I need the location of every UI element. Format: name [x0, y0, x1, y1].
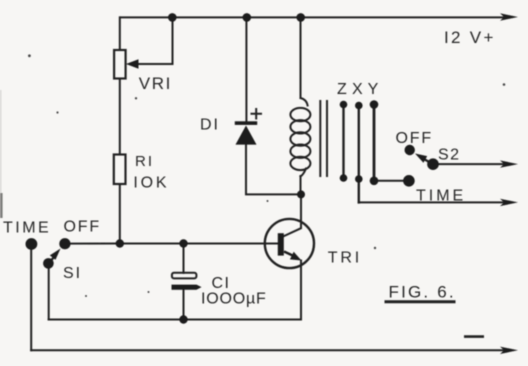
svg-text:DI: DI	[200, 117, 220, 134]
svg-text:Z X Y: Z X Y	[337, 81, 379, 98]
capacitor C1 top plate	[172, 273, 197, 279]
transistor TR1 emitter arrow	[284, 252, 297, 258]
wire VR1 to R1	[119, 79, 121, 155]
wire TR1 collector	[284, 194, 301, 236]
wire S1 TIME drop	[30, 244, 32, 350]
switch S2 OFF contact	[405, 145, 415, 155]
svg-text:SI: SI	[63, 265, 82, 282]
svg-text:OFF: OFF	[396, 130, 433, 147]
arrow top rail	[500, 13, 518, 20]
contact X bottom node	[355, 175, 363, 183]
contact X top node	[355, 102, 363, 110]
wire S1 pole drop	[48, 263, 50, 320]
potentiometer VR1	[114, 50, 126, 79]
svg-text:IOK: IOK	[133, 174, 169, 191]
capacitor C1 bottom lead	[183, 290, 185, 320]
label FIG. 6. underline	[385, 300, 456, 303]
contact Y top node	[370, 100, 379, 109]
diode D1 triangle	[236, 126, 257, 145]
wire S2 pole output	[433, 163, 505, 165]
switch S1 TIME contact	[26, 238, 38, 250]
transistor TR1 circle	[265, 219, 314, 268]
transistor TR1 base bar	[278, 233, 284, 255]
node base row C1 junction	[179, 239, 187, 247]
contact X	[358, 105, 360, 202]
contact Y	[373, 104, 376, 181]
switch S2 lever arrowhead	[415, 154, 427, 163]
wire base row	[65, 243, 278, 245]
switch S2 lever	[422, 158, 434, 165]
node rail-coil junction	[296, 13, 305, 22]
wire VR1 wiper to rail	[139, 17, 173, 64]
node base row R1 junction	[116, 239, 124, 247]
wire D1 anode to coil junction	[246, 145, 301, 195]
label D1 plus	[251, 108, 263, 120]
svg-text:S2: S2	[438, 147, 461, 164]
wire Y to S2 TIME contact	[374, 180, 410, 182]
switch S1 lever arrowhead	[50, 249, 61, 260]
wire coil bottom to junction	[300, 176, 302, 194]
node D1-coil-collector junction	[297, 190, 305, 198]
contact Y bottom node	[370, 177, 379, 186]
switch S2 pole	[427, 158, 439, 170]
diode D1 cathode bar	[235, 121, 257, 125]
svg-text:IOOOµF: IOOOµF	[201, 291, 267, 308]
wire D1 top drop	[245, 17, 247, 121]
wire TIME output	[359, 201, 505, 203]
contact Z top node	[340, 101, 348, 109]
node rail-D1 junction	[243, 13, 252, 22]
svg-text:VRI: VRI	[139, 74, 172, 93]
arrow S2 output	[500, 160, 518, 167]
svg-text:TIME: TIME	[416, 188, 466, 205]
wire VR1 top drop	[119, 17, 121, 50]
svg-text:RI: RI	[135, 153, 154, 170]
relay core bars	[320, 101, 327, 176]
svg-text:FIG. 6.: FIG. 6.	[389, 283, 456, 302]
wire emitter row	[49, 319, 301, 321]
relay coil L1	[290, 98, 310, 177]
switch S2 TIME contact	[403, 175, 415, 187]
arrow TIME output	[500, 199, 518, 206]
label minus terminal	[464, 335, 484, 338]
svg-text:TRI: TRI	[328, 249, 362, 266]
wire TR1 emitter drop	[300, 261, 302, 320]
switch S1 OFF contact	[59, 238, 70, 249]
contact Z	[342, 104, 344, 179]
capacitor C1 bottom plate	[172, 285, 202, 290]
svg-text:TIME: TIME	[3, 220, 51, 237]
wire R1 to base row	[119, 184, 121, 244]
svg-text:I2 V+: I2 V+	[444, 28, 496, 47]
capacitor C1 top lead	[183, 244, 185, 273]
wire bottom negative rail	[31, 349, 505, 351]
node rail-VR1 wiper junction	[168, 13, 177, 22]
potentiometer VR1 wiper arrowhead	[126, 59, 139, 69]
svg-text:OFF: OFF	[64, 219, 101, 236]
wire coil top drop	[300, 17, 302, 98]
switch S1 lever	[49, 256, 56, 264]
svg-text:CI: CI	[212, 275, 231, 292]
wire top positive rail	[120, 16, 505, 18]
node emitter row C1 junction	[179, 315, 187, 323]
arrow bottom rail	[500, 347, 518, 354]
resistor R1	[114, 155, 126, 185]
switch S1 pole	[43, 258, 54, 269]
contact Z bottom node	[340, 174, 348, 182]
